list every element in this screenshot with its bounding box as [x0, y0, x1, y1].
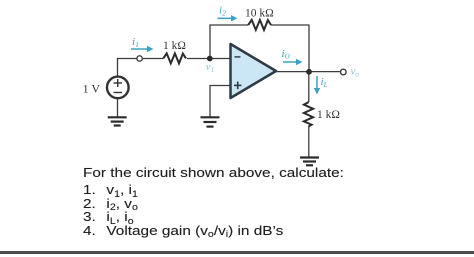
svg-text:vo: vo: [351, 66, 360, 79]
svg-text:iO: iO: [282, 48, 290, 61]
svg-text:10 kΩ: 10 kΩ: [245, 8, 274, 20]
svg-text:i1: i1: [132, 36, 139, 49]
svg-text:1 kΩ: 1 kΩ: [163, 40, 186, 52]
svg-text:i2: i2: [219, 5, 226, 18]
svg-text:1 V: 1 V: [83, 82, 101, 96]
svg-text:1 kΩ: 1 kΩ: [317, 109, 340, 121]
svg-text:v1: v1: [206, 61, 214, 74]
svg-text:iL: iL: [321, 76, 328, 89]
